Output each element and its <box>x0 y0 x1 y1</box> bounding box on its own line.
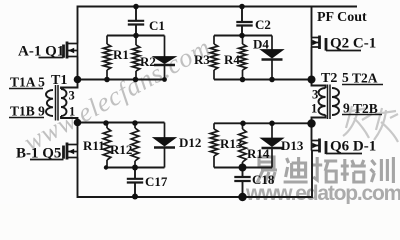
diode D13 <box>262 123 283 167</box>
wire bottom-left cell top line <box>78 123 165 145</box>
transistor Q6 <box>312 139 327 155</box>
capacitor C17 <box>127 179 143 183</box>
svg-text:C17: C17 <box>145 174 168 189</box>
wire top-right cell bottom line <box>214 47 312 80</box>
svg-text:9: 9 <box>343 101 350 116</box>
transistor Q5 <box>64 143 78 160</box>
diode D12 <box>154 123 175 168</box>
svg-text:R4: R4 <box>224 52 240 67</box>
svg-text:3: 3 <box>312 88 318 102</box>
svg-text:R12: R12 <box>110 142 132 157</box>
svg-text:5: 5 <box>342 70 349 85</box>
svg-text:Q2 C-1: Q2 C-1 <box>330 36 376 52</box>
watermark faint CJK glyphs right edge <box>343 106 398 142</box>
wire C17 leads <box>134 168 136 197</box>
wire C2 leads <box>241 7 243 36</box>
transistor Q1 <box>64 42 78 59</box>
watermark 易迪拓培训 (pseudo-glyphs) <box>257 157 393 183</box>
capacitor C18 <box>234 177 250 181</box>
svg-text:T2: T2 <box>321 71 337 86</box>
svg-text:T1: T1 <box>51 73 67 88</box>
svg-text:PF Cout: PF Cout <box>317 10 367 25</box>
resistor R1 <box>103 36 111 80</box>
svg-text:R3: R3 <box>194 52 210 67</box>
resistor R2 <box>132 36 140 80</box>
svg-text:C1: C1 <box>149 18 165 33</box>
wire C1 top lead <box>135 7 137 21</box>
svg-text:T2A: T2A <box>352 71 378 86</box>
wire Q2 drain from top rail <box>311 7 313 38</box>
capacitor C1 <box>128 21 144 25</box>
resistor R14 <box>239 123 247 167</box>
svg-text:D4: D4 <box>253 37 269 52</box>
diode D4 <box>262 36 283 80</box>
diode D3 (unlabelled) <box>154 36 175 80</box>
wire bottom-right cell bottom line <box>214 167 272 169</box>
svg-text:1: 1 <box>69 105 75 119</box>
resistor R13 <box>210 123 218 167</box>
wire bottom-right cell top line <box>214 123 312 140</box>
node: junction dots <box>133 4 139 10</box>
resistor R3 <box>210 36 218 80</box>
transformer T1 <box>46 80 78 123</box>
transistor Q2 <box>312 36 327 51</box>
svg-text:Q6 D-1: Q6 D-1 <box>330 139 376 155</box>
wire C18 leads <box>242 168 244 198</box>
wire top-left cell top line <box>107 35 165 37</box>
wire bottom-left cell bottom line <box>107 167 165 169</box>
svg-text:T1A 5: T1A 5 <box>10 75 45 90</box>
svg-text:T1B 9: T1B 9 <box>10 104 45 119</box>
resistor R11 <box>103 123 111 168</box>
svg-text:3: 3 <box>69 89 75 103</box>
svg-text:D13: D13 <box>281 138 304 153</box>
wire bottom rail <box>78 151 313 198</box>
resistor R4 <box>239 36 247 80</box>
svg-text:R1: R1 <box>113 47 129 62</box>
wire top rail <box>78 7 358 44</box>
svg-text:C2: C2 <box>255 17 271 32</box>
svg-text:R11: R11 <box>83 138 105 153</box>
svg-text:R13: R13 <box>220 136 243 151</box>
svg-text:C18: C18 <box>252 172 275 187</box>
svg-text:D12: D12 <box>179 135 201 150</box>
capacitor C2 <box>236 22 252 26</box>
svg-text:1: 1 <box>311 102 317 116</box>
wire C1 bottom lead <box>135 25 137 36</box>
wire top-right cell top line <box>214 35 272 37</box>
transformer T2 <box>312 80 340 124</box>
resistor R12 <box>131 123 139 168</box>
wire top-left cell bottom line <box>78 57 165 80</box>
